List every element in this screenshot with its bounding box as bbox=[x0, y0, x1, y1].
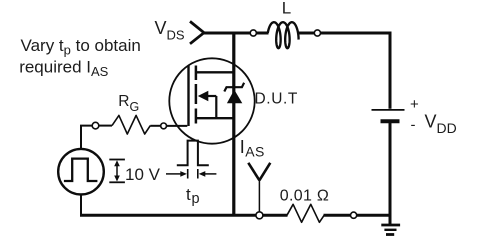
resistor 0.01 zigzag bbox=[287, 204, 324, 222]
svg-text:-: - bbox=[411, 117, 416, 134]
wire RG to node bbox=[150, 125, 160, 127]
transistor Q1 body arrow bbox=[198, 91, 209, 101]
svg-text:0.01 Ω: 0.01 Ω bbox=[280, 187, 329, 204]
pulse source circle bbox=[58, 149, 104, 195]
wire top left segment bbox=[203, 32, 269, 35]
transistor Q1 channel segments bbox=[195, 66, 198, 124]
pulse source waveform bbox=[64, 159, 98, 181]
wire node to gate bbox=[167, 125, 188, 127]
wire bottom bbox=[80, 214, 288, 217]
node IAS probe bbox=[256, 212, 263, 219]
node right of RG bbox=[161, 123, 167, 129]
battery VDD plate - bbox=[381, 119, 400, 123]
wire node to RG bbox=[99, 125, 112, 127]
body diode triangle bbox=[227, 90, 242, 103]
inductor L coil bbox=[268, 22, 299, 48]
resistor RG zigzag bbox=[112, 115, 150, 134]
svg-text:L: L bbox=[282, 0, 291, 17]
svg-text:D.U.T: D.U.T bbox=[255, 91, 298, 108]
current probe IAS stem bbox=[258, 179, 260, 212]
svg-text:required IAS: required IAS bbox=[19, 58, 108, 80]
battery VDD plate + bbox=[372, 109, 405, 111]
node left of RG bbox=[92, 122, 99, 129]
wire top right segment bbox=[298, 32, 391, 35]
10V measure double arrow bbox=[116, 164, 118, 178]
node left of inductor bbox=[250, 30, 256, 36]
node right of 0.01 resistor bbox=[351, 212, 357, 218]
tp arrows bbox=[166, 173, 182, 175]
wire pulse source to bottom bbox=[80, 195, 82, 216]
wire right vertical lower bbox=[389, 121, 392, 226]
10V measure ticks bbox=[109, 159, 125, 161]
svg-text:tp: tp bbox=[186, 185, 200, 207]
svg-text:VDD: VDD bbox=[425, 112, 457, 137]
svg-text:RG: RG bbox=[118, 93, 139, 114]
op circle D.U.T (mosfet envelope) bbox=[169, 58, 254, 143]
svg-text:10 V: 10 V bbox=[125, 165, 161, 184]
wire drain/source vertical bbox=[232, 33, 235, 215]
transistor Q1 drain lead bbox=[196, 71, 234, 73]
transistor Q1 source lead bbox=[196, 117, 234, 119]
svg-text:+: + bbox=[410, 96, 419, 113]
body diode (zener) cathode bar bbox=[224, 83, 244, 92]
svg-text:VDS: VDS bbox=[155, 18, 185, 43]
svg-text:IAS: IAS bbox=[240, 137, 265, 160]
transistor Q1 gate bar bbox=[187, 66, 189, 127]
current probe IAS arms bbox=[248, 163, 270, 181]
node right of inductor bbox=[314, 30, 320, 36]
probe VDS bbox=[190, 21, 204, 43]
tp pulse waveform bbox=[177, 141, 209, 166]
tp ticks bbox=[187, 169, 189, 179]
wire gate from pulse source bbox=[81, 126, 92, 150]
ground bbox=[381, 225, 400, 235]
wire right vertical upper bbox=[389, 32, 392, 109]
svg-text:Vary tp to obtain: Vary tp to obtain bbox=[21, 36, 141, 58]
